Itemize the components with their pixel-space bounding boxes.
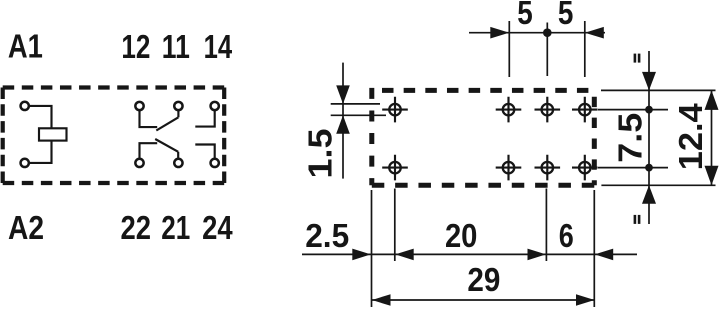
equal sign bottom [634, 215, 641, 224]
pin hole A1 [382, 97, 408, 123]
contact terminal 24 [211, 159, 219, 167]
extension line pin row bottom [598, 167, 668, 169]
coil terminal A2 [21, 159, 29, 167]
coil K1 [39, 128, 67, 140]
arrow 29 right [576, 294, 595, 306]
contact terminal 11 [174, 102, 182, 110]
relay outline bottom edge [3, 181, 225, 185]
svg-text:6: 6 [559, 217, 574, 254]
svg-text:14: 14 [204, 28, 233, 65]
fixed contact 14 lead [195, 111, 214, 127]
arrow 20 left [395, 249, 414, 261]
pin hole 22 [496, 155, 522, 181]
dot 7.5 top [645, 106, 653, 114]
svg-text:5: 5 [517, 0, 533, 31]
tick hole bottom tangent [331, 114, 386, 116]
arrow equal margin bottom [642, 185, 656, 204]
pin hole A2 [382, 155, 408, 181]
svg-text:11: 11 [162, 28, 190, 65]
svg-text:22: 22 [121, 209, 152, 246]
contact terminal 12 [135, 102, 143, 110]
relay outline right edge [222, 88, 226, 184]
arrow 5-5 right [585, 27, 604, 39]
arrow equal margin top [642, 72, 656, 91]
extension line pin column 11-21 lower [545, 189, 547, 262]
pin hole 21 [535, 155, 561, 181]
footprint outline left edge [369, 88, 374, 185]
relay outline left edge [1, 88, 5, 184]
footprint outline top edge [382, 88, 588, 93]
svg-text:12: 12 [121, 28, 150, 65]
wire A1 to coil [30, 106, 52, 128]
arrow 12.4 bottom [705, 166, 719, 186]
contact terminal 22 [135, 159, 143, 167]
equal sign top [634, 54, 641, 63]
dot 7.5 bottom [645, 164, 653, 172]
svg-text:21: 21 [161, 209, 190, 246]
arrow 2.5 [352, 249, 371, 261]
fixed contact 22 lead [140, 143, 158, 158]
extension line outline top [601, 89, 716, 91]
arrow 1.5 upper [336, 85, 350, 104]
movable arm 11-12 [156, 117, 178, 130]
extension line pin column 14-24 [584, 21, 586, 77]
svg-text:5: 5 [558, 0, 574, 31]
fixed contact 24 lead [195, 145, 214, 159]
contact terminal 14 [211, 102, 219, 110]
footprint outline bottom edge [372, 183, 595, 188]
fixed contact 12 lead [140, 111, 158, 127]
extension line outline left [371, 190, 373, 307]
pole 21 stub [177, 152, 179, 158]
arrow 20 right [528, 249, 547, 261]
svg-text:24: 24 [202, 209, 233, 246]
coil terminal A1 [21, 102, 29, 110]
svg-text:A2: A2 [8, 209, 44, 246]
svg-text:1.5: 1.5 [302, 129, 339, 179]
dimension line 5-5 [469, 32, 605, 34]
wire coil to A2 [30, 141, 52, 163]
pin hole 12 [496, 97, 522, 123]
arrow 6 right [595, 249, 614, 261]
arrow 1.5 lower [336, 115, 350, 134]
arrow 12.4 top [705, 90, 719, 110]
pin hole 14 [572, 97, 598, 123]
relay outline top edge [3, 85, 225, 89]
extension line pin row top [598, 109, 668, 111]
dimension line 1.5 [342, 63, 344, 179]
svg-text:A1: A1 [8, 28, 43, 65]
pin hole 11 [535, 97, 561, 123]
dot 5-5 center [543, 28, 552, 37]
arrow 5-5 left [490, 27, 509, 39]
pole 11 stub [177, 111, 179, 117]
dimension line 29 [372, 299, 595, 301]
extension line pin column A1-A2 [394, 189, 396, 262]
footprint outline right edge [592, 97, 597, 186]
dimension line 2.5-20-6 [302, 253, 637, 255]
svg-text:12.4: 12.4 [672, 103, 709, 171]
svg-text:29: 29 [467, 261, 500, 298]
pin hole 24 [572, 155, 598, 181]
dimension line 12.4 [711, 90, 713, 185]
arrow 29 left [372, 294, 391, 306]
extension line outline right [593, 190, 595, 307]
svg-text:20: 20 [445, 217, 478, 254]
svg-text:7.5: 7.5 [612, 113, 649, 163]
tick hole top tangent [331, 103, 380, 105]
movable arm 21-22 [155, 139, 178, 152]
dimension line 7.5 equal margins [648, 51, 650, 224]
extension line pin column 12-22 [508, 21, 510, 77]
contact terminal 21 [174, 159, 182, 167]
extension line outline bottom [601, 184, 715, 186]
svg-text:2.5: 2.5 [305, 217, 349, 254]
extension line pin column 11-21 [546, 23, 548, 77]
